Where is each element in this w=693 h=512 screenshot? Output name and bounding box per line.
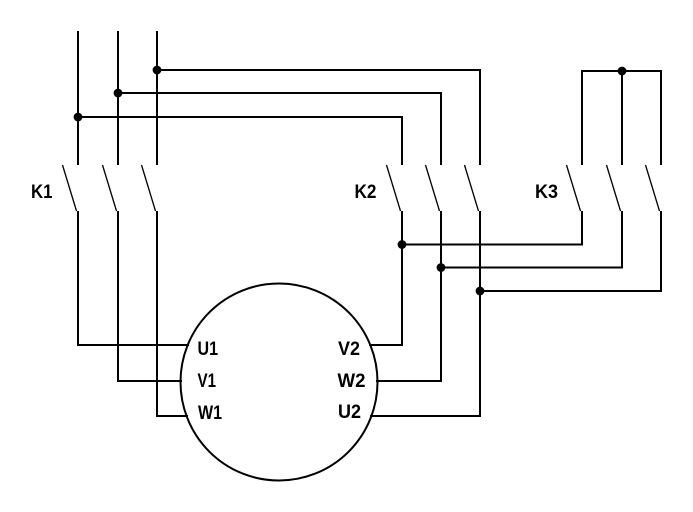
svg-text:U2: U2 — [338, 402, 361, 423]
svg-text:W2: W2 — [338, 371, 366, 392]
svg-text:U1: U1 — [198, 339, 219, 360]
svg-text:V1: V1 — [198, 371, 217, 392]
svg-text:W1: W1 — [198, 403, 222, 424]
svg-text:V2: V2 — [338, 339, 360, 360]
svg-text:K3: K3 — [535, 182, 558, 203]
svg-text:K1: K1 — [31, 182, 53, 203]
svg-text:K2: K2 — [355, 182, 377, 203]
